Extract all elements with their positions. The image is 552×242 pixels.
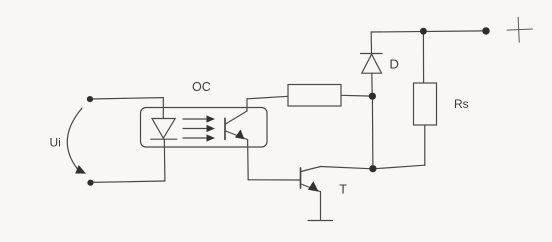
svg-text:T: T (339, 182, 347, 196)
svg-text:D: D (390, 56, 399, 71)
svg-text:Ui: Ui (50, 136, 61, 150)
svg-text:OC: OC (192, 80, 211, 94)
svg-text:Rs: Rs (454, 97, 469, 111)
